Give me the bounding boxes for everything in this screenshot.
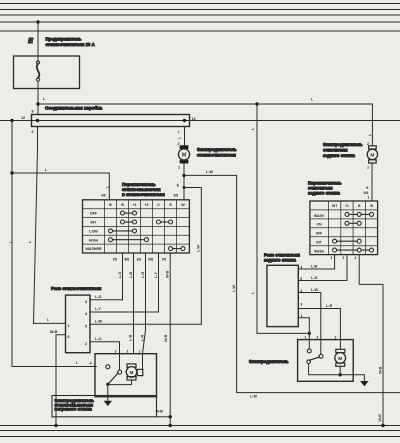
top bus line 4 xyxy=(0,21,400,23)
svg-text:Электродвигатель: Электродвигатель xyxy=(323,142,363,147)
svg-text:3/8: 3/8 xyxy=(174,194,179,198)
svg-text:стеклоочистителя: стеклоочистителя xyxy=(197,153,236,158)
svg-text:2: 2 xyxy=(178,142,180,146)
svg-text:M: M xyxy=(182,153,186,159)
svg-text:3: 3 xyxy=(343,256,345,260)
svg-text:1: 1 xyxy=(139,350,141,354)
bottom bus line 2 xyxy=(0,430,400,432)
washer motor tab xyxy=(137,369,143,375)
svg-text:M: M xyxy=(370,153,374,159)
wire relay L-W xyxy=(90,323,201,325)
wire junction box to wiper motor xyxy=(184,127,186,146)
washer terminal labels xyxy=(115,350,141,354)
wiper motor M1 xyxy=(180,146,188,149)
wire 12 vertical (left) xyxy=(12,121,96,367)
svg-text:HIGH: HIGH xyxy=(89,238,99,242)
wire L-W to relay pin5 xyxy=(184,188,201,325)
top bus line 5 xyxy=(0,30,400,32)
svg-text:Θ: Θ xyxy=(121,203,124,207)
svg-text:WASH: WASH xyxy=(314,214,325,218)
rear contacts WASH2 xyxy=(335,249,372,251)
svg-text:+1: +1 xyxy=(132,203,136,207)
node rear ground junction xyxy=(381,424,384,427)
svg-text:L-W: L-W xyxy=(95,319,102,323)
wiper relay box xyxy=(66,295,91,353)
svg-text:12: 12 xyxy=(21,116,25,120)
rear switch arm xyxy=(309,357,319,360)
rear relay pin labels xyxy=(300,266,303,319)
svg-text:L-R: L-R xyxy=(141,272,145,278)
wire rear ground out xyxy=(340,375,364,381)
svg-text:B: B xyxy=(109,203,112,207)
junction box internal bus xyxy=(0,120,400,122)
svg-text:W-B: W-B xyxy=(379,366,383,374)
svg-text:L-W: L-W xyxy=(232,285,236,292)
wire label box to ground wire xyxy=(157,416,171,418)
fuse element xyxy=(36,61,39,64)
wire relay L-O xyxy=(90,342,120,354)
wire relay L-G xyxy=(90,299,123,301)
junction box xyxy=(32,115,190,127)
svg-text:4/8: 4/8 xyxy=(101,194,106,198)
wire motor to switch xyxy=(183,163,185,200)
rear contacts ON xyxy=(347,222,359,224)
svg-text:L-W: L-W xyxy=(206,170,213,174)
rear switch table xyxy=(310,201,378,255)
rear relay box xyxy=(267,265,298,326)
wire rear theta ground xyxy=(359,255,383,426)
contacts INT row xyxy=(123,221,135,223)
svg-text:Электродвигатель: Электродвигатель xyxy=(249,359,289,364)
wire 6 vertical (to relay pin1) xyxy=(34,127,66,324)
svg-text:2: 2 xyxy=(331,256,333,260)
bottom bus line 3 xyxy=(0,436,400,438)
svg-text:L-R: L-R xyxy=(326,304,332,308)
top bus line 2 xyxy=(0,9,400,11)
node fuse/feed junction xyxy=(36,102,39,105)
rear switch contact A xyxy=(307,349,311,353)
node switch feed junction xyxy=(10,171,13,174)
washer motor M2 xyxy=(127,364,136,367)
svg-text:2: 2 xyxy=(85,342,87,346)
svg-text:Θ: Θ xyxy=(358,204,361,208)
svg-text:1: 1 xyxy=(367,166,369,170)
svg-text:очистителя: очистителя xyxy=(323,148,348,153)
bottom bus line 1 xyxy=(0,425,400,427)
wire rear relay pin1 xyxy=(298,318,309,351)
svg-text:3/8: 3/8 xyxy=(364,191,369,195)
rear table headers xyxy=(314,204,374,254)
wire fuse output xyxy=(37,81,39,114)
rear washer box terminal labels xyxy=(305,335,337,339)
svg-text:1: 1 xyxy=(68,324,70,328)
svg-text:8/8: 8/8 xyxy=(125,258,130,262)
svg-text:4: 4 xyxy=(355,256,357,260)
svg-text:L-W: L-W xyxy=(197,245,201,252)
svg-text:ON: ON xyxy=(317,223,323,227)
wire rear motor feed xyxy=(371,104,373,146)
svg-text:5: 5 xyxy=(85,325,87,329)
node rear branch junction xyxy=(255,102,258,105)
wire rear INT drop xyxy=(334,255,336,269)
svg-text:L-G: L-G xyxy=(118,272,122,278)
node rear relay pin1 junction xyxy=(308,332,311,335)
svg-text:6/8: 6/8 xyxy=(149,258,154,262)
svg-text:C: C xyxy=(157,203,160,207)
wire rear relay L-R xyxy=(298,309,340,350)
svg-text:2: 2 xyxy=(335,335,337,339)
svg-text:3/8: 3/8 xyxy=(137,258,142,262)
svg-text:3: 3 xyxy=(115,350,117,354)
washer motor label box xyxy=(52,396,157,417)
svg-text:заднего стекла: заднего стекла xyxy=(264,258,297,263)
wire rear feed drop xyxy=(257,104,309,333)
svg-text:3: 3 xyxy=(85,300,87,304)
wire switch +2 drop xyxy=(143,253,146,370)
svg-text:INT: INT xyxy=(332,204,337,208)
fuse F box xyxy=(14,56,80,89)
rear wiper motor M3 xyxy=(369,146,377,149)
wire relay W-B ground xyxy=(56,335,66,426)
wire switch C drop xyxy=(158,253,160,312)
svg-text:6: 6 xyxy=(32,130,34,134)
top bus line 3 xyxy=(0,14,400,16)
washer switch pivot xyxy=(106,383,109,386)
svg-text:L-B: L-B xyxy=(311,265,317,269)
svg-text:W-B: W-B xyxy=(166,270,170,278)
wire motor bottom xyxy=(339,366,341,375)
svg-text:8: 8 xyxy=(32,110,34,114)
pin labels below switch xyxy=(113,258,167,262)
table headers xyxy=(85,203,185,251)
wire rear pivot to motor bottom xyxy=(309,364,341,375)
svg-text:L-R: L-R xyxy=(141,335,145,341)
node rear motor ground junction xyxy=(339,373,342,376)
svg-text:1: 1 xyxy=(178,166,180,170)
rear washer box xyxy=(298,340,354,382)
contacts HIGH row xyxy=(111,239,147,241)
svg-text:W-B: W-B xyxy=(378,414,382,422)
rear switch pivot xyxy=(307,360,311,364)
wire relay L-Y xyxy=(90,311,159,313)
svg-text:Предохранитель: Предохранитель xyxy=(46,37,82,42)
wire rear motor to switch xyxy=(371,163,373,201)
wire rear relay L-W xyxy=(298,293,321,355)
svg-text:Соединительная коробка: Соединительная коробка xyxy=(45,105,103,111)
relay pin labels xyxy=(68,300,89,346)
node bus-motor junction xyxy=(183,119,186,122)
rear washer motor M4 xyxy=(336,349,345,352)
svg-text:INT: INT xyxy=(91,221,98,225)
svg-text:4: 4 xyxy=(317,335,319,339)
svg-text:LOW: LOW xyxy=(89,230,98,234)
washer switch contact B xyxy=(118,370,122,374)
svg-text:M: M xyxy=(130,370,134,375)
node L-W branch xyxy=(182,174,185,177)
svg-text:Электродвигатель: Электродвигатель xyxy=(197,147,237,152)
svg-text:стеклоочистителя 20 А: стеклоочистителя 20 А xyxy=(46,42,95,47)
wire washer sw contact xyxy=(119,354,121,370)
svg-text:+2: +2 xyxy=(144,203,148,207)
node label box wire junction xyxy=(169,415,172,418)
wire motor bottom to pivot xyxy=(108,380,132,401)
svg-text:7: 7 xyxy=(178,131,180,135)
node bus-left junction xyxy=(10,119,13,122)
wire L-W long branch to rear xyxy=(184,175,400,392)
wire switch theta drop xyxy=(122,253,124,300)
svg-text:W-B: W-B xyxy=(156,410,164,414)
svg-text:W-B: W-B xyxy=(164,334,168,342)
svg-text:WASHER: WASHER xyxy=(85,247,102,251)
svg-text:INT: INT xyxy=(316,241,321,245)
wire switch B feed xyxy=(12,173,109,200)
washer switch arm xyxy=(108,373,118,385)
svg-text:OFF: OFF xyxy=(316,232,323,236)
svg-text:ветрового стекла: ветрового стекла xyxy=(55,407,93,412)
rear switch pin labels xyxy=(331,256,357,260)
svg-text:W: W xyxy=(181,203,185,207)
svg-text:L-Y: L-Y xyxy=(95,307,101,311)
rear contacts WASH1 xyxy=(333,212,374,252)
node relay ground junction xyxy=(54,424,57,427)
wire switch +1 drop xyxy=(133,253,135,354)
svg-text:L-G: L-G xyxy=(311,276,317,280)
wiper switch table xyxy=(83,200,190,253)
svg-text:L-W: L-W xyxy=(311,288,318,292)
svg-text:OFF: OFF xyxy=(90,212,98,216)
svg-text:L-Y: L-Y xyxy=(154,272,158,278)
rear switch contact B xyxy=(319,354,323,358)
svg-text:M: M xyxy=(338,356,342,362)
svg-text:L-O: L-O xyxy=(95,337,101,341)
wire rear +1 drop xyxy=(346,255,348,281)
svg-text:W-B: W-B xyxy=(50,330,58,334)
node bus-fuse junction xyxy=(36,119,39,122)
svg-text:L-W: L-W xyxy=(250,395,257,399)
contacts OFF row xyxy=(109,211,186,251)
wire switch E drop (ground W-B) xyxy=(169,253,171,426)
svg-text:L-G: L-G xyxy=(95,295,101,299)
rear contacts INT xyxy=(335,240,360,242)
wire rear relay L-G xyxy=(298,280,347,282)
svg-text:WASH: WASH xyxy=(314,250,325,254)
contacts LOW row xyxy=(111,230,135,232)
svg-text:L-B: L-B xyxy=(129,272,133,278)
svg-text:и стеклоочистителя: и стеклоочистителя xyxy=(122,192,165,197)
contacts WASHER row xyxy=(171,248,183,250)
svg-text:7/8: 7/8 xyxy=(162,258,167,262)
wire fuse feed (bus to fuse) xyxy=(37,22,39,62)
top bus line 1 xyxy=(0,3,400,5)
ground symbol xyxy=(104,401,112,406)
wire feed line to rear motor xyxy=(38,103,372,105)
svg-text:+1: +1 xyxy=(345,204,349,208)
svg-text:6: 6 xyxy=(68,335,70,339)
washer motor box xyxy=(95,354,157,397)
washer switch contact A xyxy=(106,365,110,369)
rear ground symbol xyxy=(360,381,368,386)
svg-text:1: 1 xyxy=(305,335,307,339)
svg-text:заднего стекла: заднего стекла xyxy=(308,191,341,196)
svg-text:Реле стеклоочистителя: Реле стеклоочистителя xyxy=(51,286,102,291)
node relay L-W branch xyxy=(183,186,186,189)
svg-text:7/8: 7/8 xyxy=(113,258,118,262)
svg-text:L-B: L-B xyxy=(129,335,133,341)
svg-text:1: 1 xyxy=(368,196,370,200)
wire rear relay L-B xyxy=(298,268,334,270)
svg-text:2: 2 xyxy=(127,350,129,354)
svg-text:3: 3 xyxy=(300,303,302,307)
svg-text:заднего стекла: заднего стекла xyxy=(323,153,356,158)
junction dot on bus 4 xyxy=(36,20,39,23)
node ground bus junction xyxy=(169,424,172,427)
